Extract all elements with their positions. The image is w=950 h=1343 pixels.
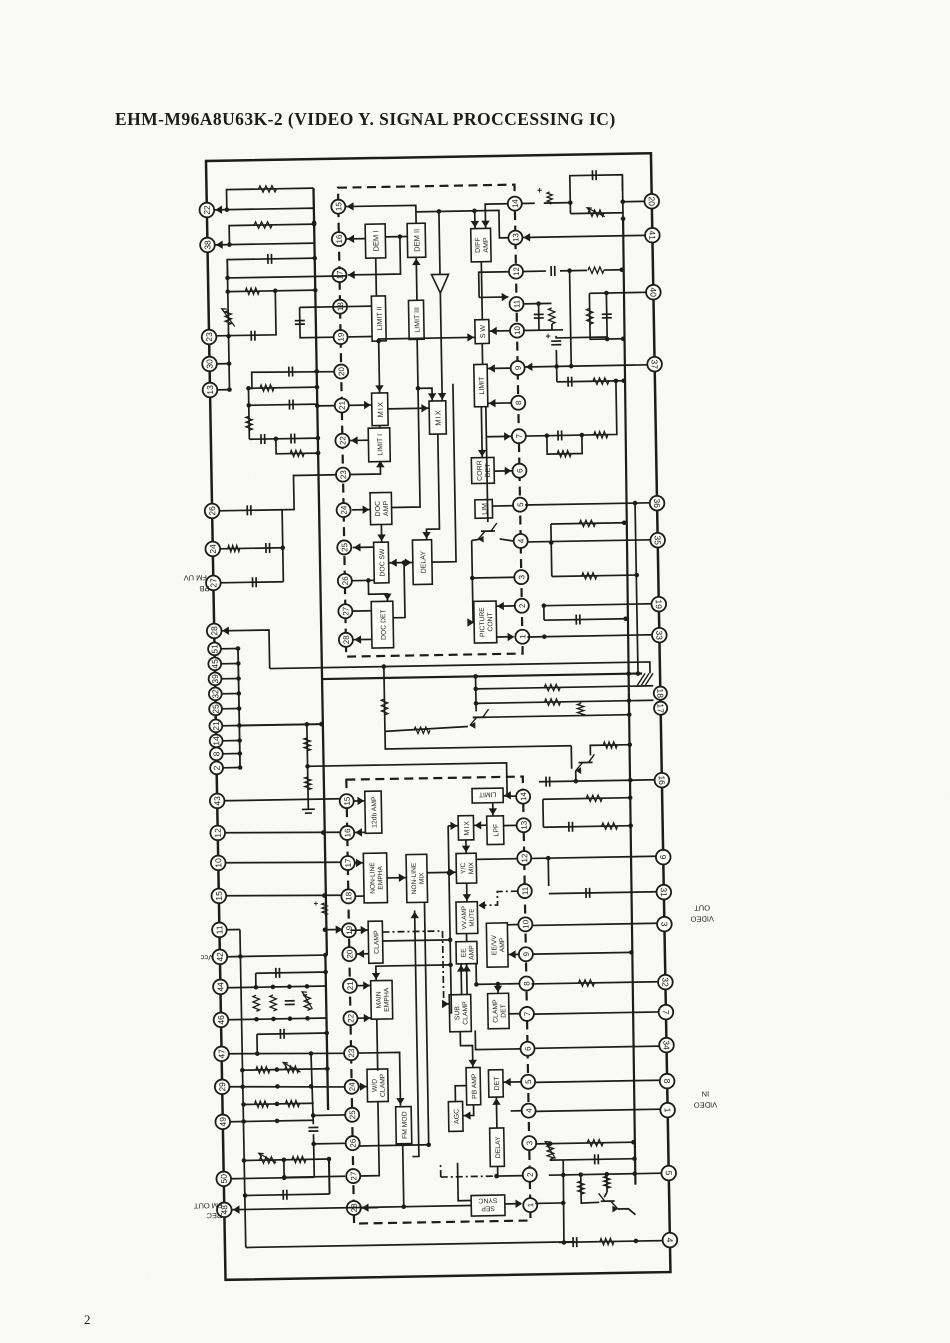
resistor R-pa	[594, 431, 608, 438]
dot divider mid	[305, 764, 310, 769]
svg-text:CLAMP: CLAMP	[373, 930, 380, 954]
wire loop to pin20	[621, 175, 624, 219]
dot pin 14 stub	[237, 738, 242, 743]
wire DOC SW to pin25	[353, 546, 374, 548]
pin 4 (right rail)	[662, 1233, 677, 1248]
wire pin25L row	[313, 1114, 345, 1117]
dot pin 25 stub	[237, 706, 242, 711]
resistor R-u vertical	[270, 995, 277, 1011]
wire row y833	[543, 826, 630, 828]
lower IC pin 14 (right)	[516, 790, 530, 804]
svg-text:AMP: AMP	[483, 237, 490, 253]
upper IC pin 18 (left)	[333, 300, 347, 314]
upper IC pin 22 (left)	[335, 434, 349, 448]
wire pin23 chain left link	[282, 475, 337, 510]
wire cap drop to pin23	[216, 291, 276, 336]
lower IC pin 12 (right)	[517, 851, 531, 865]
svg-text:41: 41	[647, 230, 657, 240]
svg-text:30: 30	[204, 359, 214, 369]
wire pin7u row	[525, 381, 617, 436]
dots pin35 row	[549, 540, 554, 545]
wire pin10L row	[225, 861, 341, 865]
capacitor C-i (pin27)	[252, 577, 256, 587]
arrowhead into NON-LINE MIX	[399, 873, 406, 882]
svg-text:9: 9	[514, 365, 523, 370]
wire W/D CLAMP arrow	[359, 1086, 368, 1088]
svg-text:1: 1	[518, 634, 527, 639]
wire pin12L-pin9R row b	[531, 856, 656, 858]
left interior bus	[313, 188, 326, 955]
pin 27 (left rail)	[206, 576, 221, 591]
svg-text:25: 25	[210, 704, 220, 714]
svg-text:8: 8	[514, 400, 523, 405]
block DEM II	[407, 223, 426, 257]
ground symbol mid	[637, 673, 653, 685]
pin 37 (right rail)	[647, 357, 662, 372]
svg-text:40: 40	[648, 287, 658, 297]
pin 50 (left rail)	[216, 1171, 231, 1186]
cluster bus vertical	[238, 649, 240, 768]
svg-text:16: 16	[657, 775, 667, 785]
upper IC pin 3 (right)	[514, 570, 528, 584]
resistor R-n vertical	[381, 699, 388, 715]
dots pin47 row	[255, 1050, 313, 1056]
arrowhead into LPF top	[489, 808, 498, 815]
dots pin50 row	[282, 1175, 287, 1180]
svg-text:DET: DET	[500, 1004, 507, 1018]
arrowhead into DET	[504, 1078, 511, 1087]
divider vertical x297	[307, 724, 308, 809]
svg-text:20: 20	[345, 949, 354, 959]
stub pin 21	[222, 725, 239, 727]
svg-text:DEM II: DEM II	[412, 229, 421, 252]
arrowhead into pin19L	[336, 925, 343, 934]
wire MUTE to EE AMP	[466, 934, 468, 942]
svg-text:17: 17	[335, 270, 344, 280]
wire r drop	[551, 324, 553, 330]
svg-text:16: 16	[343, 828, 352, 838]
wire CLAMP to pin20L	[356, 953, 368, 955]
wire pin14 right series	[522, 202, 535, 204]
junction dot cap row	[225, 256, 317, 281]
arrowhead into DEM II	[412, 258, 421, 265]
right interior bus	[621, 219, 632, 693]
wire pin19r row	[544, 604, 652, 606]
wire pin7L-pin7R row	[534, 1012, 659, 1014]
arrowhead into pin7u	[504, 432, 511, 441]
arrowhead into W/D CLAMP	[360, 1082, 367, 1091]
svg-text:CORR: CORR	[477, 460, 484, 481]
capacitor C-j (18/19)	[295, 321, 305, 325]
svg-text:FM UV: FM UV	[184, 573, 207, 582]
arrowhead into pin 28	[222, 626, 229, 635]
upper IC pin 27 (left)	[338, 604, 352, 618]
dots pin9L right	[629, 950, 634, 955]
capacitor C-v	[569, 822, 573, 832]
upper IC pin 12 (right)	[509, 264, 523, 278]
wire pin5L to DET	[503, 1081, 521, 1083]
upper IC pin 26 (left)	[338, 574, 352, 588]
trimmer resistor RT-a	[588, 210, 604, 217]
dash-dot stub up	[440, 1162, 442, 1177]
dash-dot CLAMP right	[382, 931, 443, 1005]
arrowhead into Y/C MIX top	[462, 846, 471, 853]
wire cap row y1166	[563, 1159, 634, 1160]
arrowhead into Y/C MIX	[449, 868, 456, 877]
transistor Q2 (middle)	[470, 709, 489, 729]
lower IC pin 25 (left)	[345, 1108, 359, 1122]
wire pin19 row	[348, 336, 372, 338]
wire r to loop	[544, 202, 570, 204]
svg-text:AMP: AMP	[499, 937, 506, 952]
wire pin50 row	[231, 1177, 314, 1178]
junction dots pin38 loop	[227, 222, 317, 247]
svg-text:LIMIT I: LIMIT I	[377, 434, 384, 456]
block DIFF AMP	[471, 228, 491, 262]
pin 23 (left rail)	[202, 330, 217, 345]
pin40 loop left	[589, 293, 623, 340]
arrowhead into pin1u	[508, 633, 515, 642]
svg-text:EMPHA: EMPHA	[377, 865, 384, 889]
pin 11 (left rail)	[212, 922, 227, 937]
wire triangle out to MIX	[440, 293, 442, 401]
lower IC pin 5 (right)	[521, 1075, 535, 1089]
stub pin 8	[222, 752, 239, 754]
upper IC pin 5 (right)	[513, 498, 527, 512]
svg-text:MAIN: MAIN	[376, 991, 383, 1008]
arrowhead into SW 2	[467, 333, 474, 342]
dot pin 39 stub	[236, 676, 241, 681]
dots q3	[627, 742, 632, 747]
wire pin14 to DIFF	[485, 204, 508, 229]
block MIX (left)	[372, 393, 389, 426]
svg-text:DET: DET	[494, 1076, 501, 1091]
wire res row y530	[551, 523, 624, 524]
ground bar	[302, 809, 315, 813]
wire y974 drop	[255, 973, 257, 987]
svg-text:37: 37	[650, 359, 660, 369]
wire pin11 cap drop	[538, 304, 540, 331]
dot x276 y549	[280, 545, 285, 550]
arrowhead into MUTE	[463, 894, 472, 901]
svg-text:15: 15	[343, 796, 352, 806]
arrowhead into EE AMP bottom	[457, 965, 466, 972]
wire pin22 loop	[215, 208, 314, 224]
pin 14 (left rail)	[210, 734, 223, 747]
svg-text:IN: IN	[702, 1089, 710, 1098]
capacitor C-o	[568, 377, 572, 387]
long vertical x436	[446, 826, 451, 1013]
stub pin 45	[221, 663, 238, 665]
svg-text:DIFF: DIFF	[475, 237, 482, 253]
trimmer RT-e	[259, 1157, 275, 1164]
dot pin27L left	[282, 1175, 287, 1180]
svg-text:15: 15	[214, 891, 224, 901]
wire q2 base	[487, 716, 581, 718]
dot pin30	[227, 361, 232, 366]
svg-text:12db AMP: 12db AMP	[371, 796, 379, 828]
capacitor C-n vertical (+)	[551, 341, 561, 345]
arrowhead into MIX left top	[375, 385, 384, 392]
svg-text:26: 26	[207, 506, 217, 516]
lower IC dashed outline	[346, 777, 530, 1224]
pin 13 (left rail)	[203, 383, 218, 398]
resistor R-v	[256, 1067, 270, 1074]
trimmer arrow RT-b	[302, 992, 312, 1009]
block CLAMP DET	[488, 993, 510, 1029]
dots DOC SW-DELAY	[402, 560, 407, 565]
wire SUB CLAMP to PB AMP	[460, 1031, 473, 1067]
resistor R-k	[593, 378, 609, 385]
arrowhead into DIFF AMP 1	[471, 221, 480, 228]
svg-text:12: 12	[213, 828, 223, 838]
wire Q3 base from vert	[570, 746, 572, 769]
svg-text:29: 29	[217, 1082, 227, 1092]
lower IC pin 17 (left)	[341, 856, 355, 870]
wire pin9u to pin37	[525, 365, 648, 367]
dot triangle	[437, 209, 442, 214]
arrowhead into NON-LINE EMPHA	[356, 859, 363, 868]
arrowhead into pin6u	[505, 467, 512, 476]
block DEM I	[365, 224, 386, 258]
upper IC pin 7 (right)	[512, 429, 526, 443]
capacitor C-k	[592, 170, 596, 180]
wire pin8L-pin32R row	[531, 982, 658, 984]
svg-text:22: 22	[202, 205, 212, 215]
wire LIMIT II to SW	[379, 337, 476, 341]
svg-text:CLAMP: CLAMP	[462, 1001, 469, 1025]
resistor R-ad	[578, 980, 594, 987]
arrowhead into pin16L	[355, 828, 362, 837]
capacitor C-u	[283, 1190, 287, 1200]
dot pin 45 stub	[236, 661, 241, 666]
wire pin26L right row	[360, 1145, 429, 1146]
vertical x276	[282, 510, 283, 582]
wire bus to pin21	[317, 405, 334, 407]
wire drop from pin12row	[570, 271, 572, 366]
pin 31 (right rail)	[656, 885, 671, 900]
svg-text:OUT: OUT	[694, 903, 710, 912]
pin 9 (right rail)	[656, 850, 671, 865]
lower IC pin 22 (left)	[343, 1011, 357, 1025]
wire pin4L-pin1R row	[536, 1109, 661, 1111]
wire mid vert R	[384, 667, 385, 732]
wire W/D bottom to pin27L	[359, 1102, 379, 1176]
lower IC pin 20 (left)	[342, 947, 356, 961]
junction dot pin23 row	[226, 334, 231, 339]
svg-text:EE: EE	[461, 948, 468, 958]
svg-text:26: 26	[349, 1138, 358, 1148]
wire SUB CLAMP to EE AMP	[460, 964, 463, 995]
pin 49 (left rail)	[215, 1114, 230, 1129]
block MIX (lower)	[458, 816, 474, 841]
svg-text:14: 14	[519, 792, 528, 802]
svg-text:7: 7	[523, 1011, 532, 1016]
wire branch to MIX top	[418, 388, 432, 401]
svg-text:35: 35	[653, 535, 663, 545]
arrowhead into upper pin 17	[348, 271, 355, 280]
capacitor C-pb vertical	[534, 314, 544, 318]
resistor R-s	[603, 742, 617, 749]
resistor R-m	[579, 520, 595, 527]
svg-text:18: 18	[655, 688, 665, 698]
wire pin17r row	[476, 700, 653, 703]
wire y768 long	[308, 763, 508, 800]
arrowhead doc-delay r	[405, 558, 412, 567]
pin 7 (right rail)	[658, 1005, 673, 1020]
wire pin22 chain to LIMIT I	[349, 439, 368, 441]
dots base row	[627, 712, 632, 717]
svg-text:22: 22	[346, 1013, 355, 1023]
wire DIFF to SW	[481, 262, 482, 320]
lower IC pin 13 (right)	[517, 818, 531, 832]
svg-text:CLAMP: CLAMP	[492, 999, 499, 1023]
pin 41 (right rail)	[645, 228, 660, 243]
dots pin21 rail row	[305, 722, 324, 727]
wire pin21 row	[349, 404, 372, 406]
dots y530	[622, 520, 627, 525]
wire NLM to Y/C MIX	[427, 871, 456, 874]
svg-text:47: 47	[216, 1049, 226, 1059]
resistor R-w2	[254, 1101, 268, 1108]
svg-text:23: 23	[204, 332, 214, 342]
wire MIX left out	[388, 407, 429, 410]
resistor R-c	[245, 288, 259, 295]
IC outline frame	[206, 153, 670, 1280]
svg-text:2: 2	[518, 603, 527, 608]
svg-text:3: 3	[525, 1140, 534, 1145]
svg-text:MIX: MIX	[376, 401, 385, 417]
wire pin27 row	[220, 582, 283, 583]
dots bottom row	[562, 1239, 639, 1245]
pin 18 (right rail)	[654, 686, 667, 699]
upper IC pin 1 (right)	[515, 630, 529, 644]
wire pin15L arrow	[354, 800, 365, 802]
wire pin1L right2	[535, 1202, 563, 1204]
dots y389	[246, 385, 319, 391]
pin 24 (left rail)	[205, 542, 220, 557]
svg-text:AMP: AMP	[383, 500, 390, 516]
wire to pin 20	[623, 200, 645, 202]
arrowhead into AGC	[464, 1111, 471, 1120]
arrowhead into DELAY	[422, 532, 431, 539]
wire row y388 left	[556, 366, 558, 381]
trimmer RT-f vertical	[547, 1145, 554, 1159]
svg-text:6: 6	[515, 468, 524, 473]
svg-text:EMPHA: EMPHA	[383, 987, 390, 1012]
dot ladder top	[614, 379, 619, 384]
arrowhead into pin 48	[233, 1205, 240, 1214]
upper IC pin 10 (right)	[510, 323, 524, 337]
wire pin9L to EEVV	[508, 953, 519, 955]
svg-text:7: 7	[661, 1010, 671, 1015]
block EE AMP	[456, 941, 477, 964]
pin 12 (left rail)	[210, 825, 225, 840]
pin 17 (right rail)	[654, 701, 667, 714]
wire inner right vert	[635, 503, 638, 673]
wire DELAY right up	[429, 384, 456, 562]
pin 34 (right rail)	[659, 1038, 674, 1053]
dot limit3 split	[416, 386, 421, 391]
wire pin9 to LIMIT	[488, 367, 511, 369]
wire cap row y373	[252, 371, 335, 389]
capacitor C-h (pin24)	[266, 543, 270, 553]
wire cap row y1196	[245, 1194, 329, 1195]
wire pin13 stub	[217, 389, 229, 391]
wire chain pin19 feed	[325, 928, 342, 930]
pin 22 (left rail)	[199, 203, 214, 218]
arrowhead into LIMIT lower	[504, 791, 511, 800]
lower IC pin 24 (left)	[345, 1080, 359, 1094]
svg-text:10: 10	[513, 326, 522, 336]
left collector vertical	[227, 260, 229, 390]
resistor R-p	[544, 684, 560, 691]
dots pin29 row	[240, 1083, 313, 1090]
svg-text:17: 17	[656, 703, 666, 713]
dots y974	[323, 970, 328, 975]
capacitor C-m vertical	[602, 314, 612, 318]
pin 16 (right rail)	[654, 773, 669, 788]
capacitor C-p	[576, 615, 580, 625]
dot on line A	[472, 208, 477, 213]
wire pin17L arrow	[355, 862, 364, 864]
resistor R-d	[260, 385, 274, 392]
wire SW to LIMIT	[481, 344, 483, 365]
svg-text:MIX: MIX	[434, 409, 443, 425]
svg-text:4: 4	[525, 1108, 534, 1113]
arrowhead into upper pin11r	[502, 293, 509, 302]
svg-text:CONT: CONT	[487, 612, 494, 631]
wire SUB CLAMP to EE AMP 2	[466, 964, 469, 995]
svg-text:W/D: W/D	[371, 1079, 378, 1092]
wire pin35 row	[528, 540, 651, 542]
block PICTURE CONT	[474, 601, 497, 643]
svg-text:12: 12	[520, 853, 529, 863]
vertical left long	[240, 930, 246, 1248]
pin40 loop cap branch	[605, 293, 608, 339]
resistor R-pc vertical	[548, 308, 555, 324]
wire mid low horiz	[385, 728, 571, 749]
capacitor C-w	[586, 888, 590, 898]
wire resistor loop above pin22	[227, 188, 314, 210]
svg-text:EE/VV: EE/VV	[491, 935, 498, 956]
wire res row y389	[248, 387, 316, 388]
dots pin14 loop	[568, 199, 625, 222]
svg-text:16: 16	[335, 234, 344, 244]
block LIM	[475, 500, 493, 519]
block SYNC SEP	[471, 1195, 505, 1216]
wire row y582 right	[552, 575, 637, 576]
svg-text:MIX: MIX	[419, 872, 426, 884]
wire q4 collector	[604, 1192, 607, 1197]
pin21 rail row	[239, 724, 321, 725]
svg-text:50: 50	[219, 1174, 229, 1184]
wire c to r	[560, 269, 587, 271]
pin 25 (left rail)	[209, 702, 222, 715]
wire DEM I out to pin16	[346, 238, 365, 240]
svg-text:MIX: MIX	[464, 820, 471, 836]
pin 21 (left rail)	[209, 719, 222, 732]
wire pin5L-pin8R row	[535, 1080, 660, 1082]
wire triangle input	[439, 211, 440, 274]
vertical A x545	[562, 1160, 564, 1243]
pin 38 (left rail)	[200, 238, 215, 253]
wire MIX to Y/C MIX	[465, 840, 467, 853]
wire pin48 long row	[232, 1207, 403, 1210]
block 12db AMP	[365, 791, 382, 833]
dot fmmod row	[401, 1204, 406, 1209]
wire LIMIT to CORR DET	[480, 407, 483, 458]
